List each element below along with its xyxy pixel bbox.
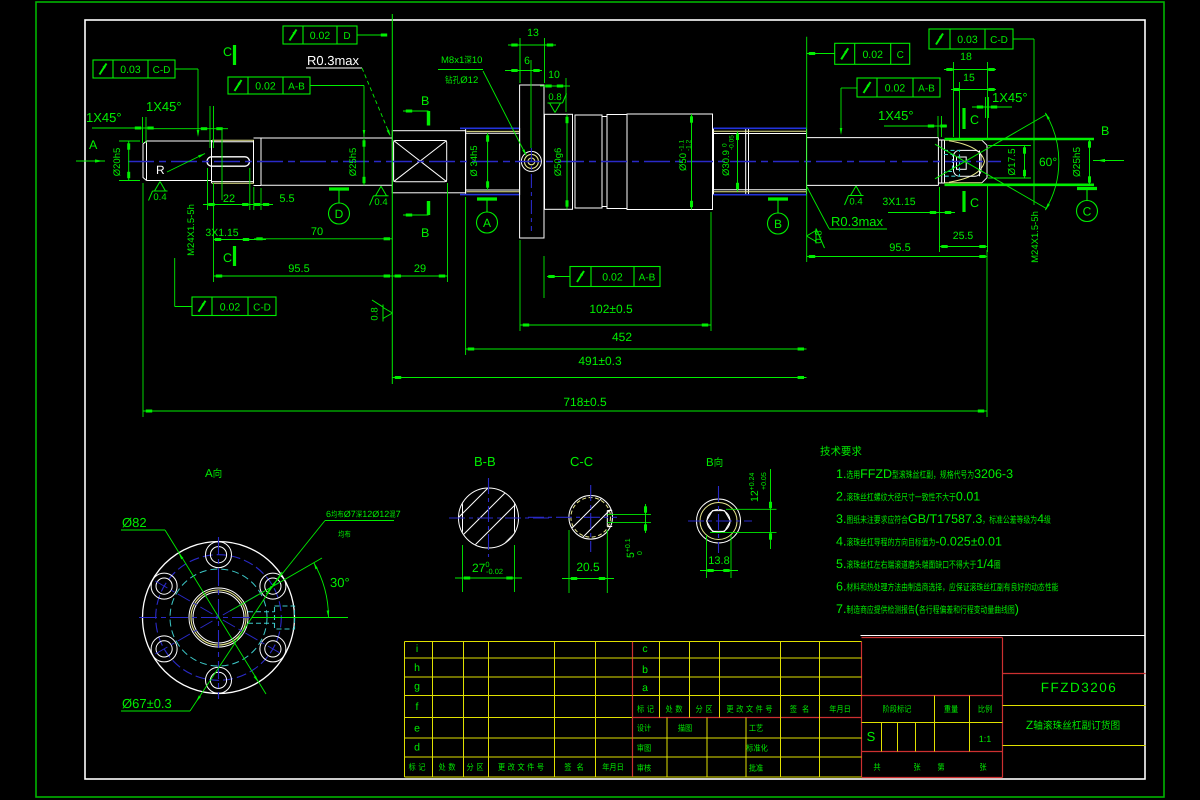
svg-text:0.01: 0.01 bbox=[956, 490, 980, 504]
svg-text:3.: 3. bbox=[836, 512, 846, 526]
svg-text:0.02: 0.02 bbox=[310, 30, 331, 42]
svg-text:0.03: 0.03 bbox=[120, 64, 141, 76]
svg-text:A-B: A-B bbox=[918, 84, 935, 95]
svg-text:13: 13 bbox=[527, 27, 539, 39]
svg-text:C-D: C-D bbox=[153, 65, 171, 76]
svg-text:d: d bbox=[414, 742, 420, 754]
svg-text:3206-3: 3206-3 bbox=[974, 467, 1013, 481]
svg-text:18: 18 bbox=[960, 51, 972, 63]
svg-text:15: 15 bbox=[963, 72, 975, 84]
svg-text:0.8: 0.8 bbox=[370, 307, 381, 320]
svg-text:A-B: A-B bbox=[288, 82, 305, 93]
svg-text:A: A bbox=[483, 216, 491, 230]
svg-text:C-D: C-D bbox=[990, 35, 1008, 46]
svg-text:-0.025±0.01: -0.025±0.01 bbox=[935, 535, 1002, 549]
svg-text:0.02: 0.02 bbox=[255, 81, 276, 93]
svg-text:5.: 5. bbox=[836, 557, 846, 571]
svg-text:0: 0 bbox=[637, 551, 644, 555]
svg-text:R0.3max: R0.3max bbox=[831, 214, 884, 229]
svg-text:): ) bbox=[1015, 602, 1019, 616]
svg-text:0.02: 0.02 bbox=[220, 301, 241, 313]
svg-text:4.: 4. bbox=[836, 535, 846, 549]
svg-text:6.: 6. bbox=[836, 580, 846, 594]
svg-text:GB/T17587.3: GB/T17587.3 bbox=[908, 512, 982, 526]
svg-text:g: g bbox=[414, 681, 420, 693]
svg-text:3X1.15: 3X1.15 bbox=[205, 227, 238, 239]
svg-text:Ø50g6: Ø50g6 bbox=[553, 148, 564, 177]
svg-text:Ø67±0.3: Ø67±0.3 bbox=[122, 696, 172, 711]
svg-text:b: b bbox=[642, 664, 648, 676]
svg-text:1X45°: 1X45° bbox=[992, 90, 1028, 105]
svg-text:C: C bbox=[897, 50, 904, 61]
svg-text:f: f bbox=[416, 701, 419, 713]
svg-text:Ø7: Ø7 bbox=[344, 509, 356, 519]
svg-text:5.5: 5.5 bbox=[279, 193, 294, 205]
svg-text:0: 0 bbox=[722, 143, 729, 147]
svg-text:Ø25h5: Ø25h5 bbox=[348, 148, 359, 177]
svg-text:1/4: 1/4 bbox=[976, 557, 993, 571]
svg-text:Ø 34h5: Ø 34h5 bbox=[469, 145, 480, 176]
svg-text:60°: 60° bbox=[1039, 155, 1057, 169]
svg-text:Ø82: Ø82 bbox=[122, 515, 147, 530]
svg-text:M8x1: M8x1 bbox=[441, 55, 464, 66]
svg-text:10: 10 bbox=[548, 69, 560, 81]
svg-text:-0.05: -0.05 bbox=[729, 135, 736, 150]
svg-text:29: 29 bbox=[414, 263, 426, 275]
svg-text:h: h bbox=[414, 662, 420, 674]
svg-text:0.4: 0.4 bbox=[153, 192, 166, 203]
svg-text:Ø17.5: Ø17.5 bbox=[1007, 148, 1018, 176]
svg-text:0.02: 0.02 bbox=[885, 83, 906, 95]
svg-text:95.5: 95.5 bbox=[889, 242, 910, 254]
svg-text:Ø30.9: Ø30.9 bbox=[721, 150, 732, 176]
svg-text:M24X1.5-5h: M24X1.5-5h bbox=[186, 204, 197, 256]
svg-text:B: B bbox=[421, 226, 429, 240]
svg-text:0.02: 0.02 bbox=[862, 49, 883, 61]
svg-text:C: C bbox=[970, 196, 979, 210]
svg-text:0.03: 0.03 bbox=[957, 34, 978, 46]
svg-text:B: B bbox=[421, 94, 429, 108]
svg-text:S: S bbox=[867, 729, 876, 744]
svg-text:20.5: 20.5 bbox=[576, 560, 600, 574]
svg-text:6: 6 bbox=[524, 55, 530, 67]
svg-text:1X45°: 1X45° bbox=[878, 108, 914, 123]
svg-text:70: 70 bbox=[311, 226, 323, 238]
svg-text:102±0.5: 102±0.5 bbox=[589, 302, 633, 316]
svg-text:Ø25h5: Ø25h5 bbox=[1072, 147, 1083, 177]
svg-text:Ø50: Ø50 bbox=[678, 153, 689, 171]
svg-text:13.8: 13.8 bbox=[708, 555, 729, 567]
svg-text:A: A bbox=[205, 468, 213, 480]
svg-text:+0.05: +0.05 bbox=[761, 472, 768, 490]
svg-text:Ø20h5: Ø20h5 bbox=[112, 148, 123, 177]
svg-text:0.8: 0.8 bbox=[548, 92, 561, 103]
svg-text:B: B bbox=[1101, 124, 1109, 138]
svg-text:1.: 1. bbox=[836, 467, 846, 481]
svg-text:C: C bbox=[970, 113, 979, 127]
svg-text:Ø12: Ø12 bbox=[460, 75, 478, 86]
svg-text:C-D: C-D bbox=[253, 302, 271, 313]
svg-text:0.4: 0.4 bbox=[849, 197, 862, 208]
svg-text:95.5: 95.5 bbox=[288, 263, 309, 275]
svg-text:7: 7 bbox=[396, 509, 401, 519]
svg-text:FFZD: FFZD bbox=[860, 467, 892, 481]
svg-text:0.02: 0.02 bbox=[602, 272, 623, 284]
svg-text:1X45°: 1X45° bbox=[86, 110, 122, 125]
svg-text:M24X1.5-5h: M24X1.5-5h bbox=[1030, 211, 1041, 263]
svg-text:a: a bbox=[642, 682, 648, 694]
svg-text:C: C bbox=[1083, 205, 1092, 219]
svg-text:6: 6 bbox=[326, 509, 331, 519]
svg-text:C-C: C-C bbox=[570, 454, 593, 469]
svg-text:2.: 2. bbox=[836, 490, 846, 504]
svg-text:R0.3max: R0.3max bbox=[307, 53, 360, 68]
svg-text:D: D bbox=[335, 207, 344, 221]
svg-text:22: 22 bbox=[223, 193, 235, 205]
svg-text:30°: 30° bbox=[330, 575, 350, 590]
svg-text:e: e bbox=[414, 723, 420, 735]
svg-text:R: R bbox=[156, 163, 165, 177]
svg-text:A: A bbox=[89, 138, 98, 152]
svg-text:C: C bbox=[223, 45, 232, 59]
svg-text:c: c bbox=[642, 643, 647, 655]
svg-text:7.: 7. bbox=[836, 602, 846, 616]
svg-text:i: i bbox=[416, 643, 418, 655]
svg-text:0.4: 0.4 bbox=[374, 197, 387, 208]
svg-text:491±0.3: 491±0.3 bbox=[578, 354, 622, 368]
svg-text:B: B bbox=[774, 217, 782, 231]
svg-text:B: B bbox=[706, 457, 714, 469]
svg-text:B-B: B-B bbox=[474, 454, 496, 469]
svg-text:25.5: 25.5 bbox=[953, 230, 974, 242]
svg-text:A-B: A-B bbox=[639, 273, 656, 284]
svg-text:718±0.5: 718±0.5 bbox=[563, 395, 607, 409]
svg-text:4: 4 bbox=[1037, 512, 1044, 526]
svg-text:-1.1: -1.1 bbox=[679, 139, 686, 151]
svg-text:1:1: 1:1 bbox=[979, 734, 992, 744]
svg-text:Z: Z bbox=[1026, 718, 1033, 732]
svg-text:-0.02: -0.02 bbox=[486, 567, 503, 576]
svg-text:C: C bbox=[223, 251, 232, 265]
svg-text:D: D bbox=[343, 31, 350, 42]
svg-text:3X1.15: 3X1.15 bbox=[882, 196, 915, 208]
svg-text:0.8: 0.8 bbox=[814, 230, 825, 243]
svg-text:12Ø12: 12Ø12 bbox=[362, 509, 389, 519]
svg-text:10: 10 bbox=[472, 55, 483, 66]
svg-text:1X45°: 1X45° bbox=[146, 99, 182, 114]
svg-text:FFZD3206: FFZD3206 bbox=[1041, 680, 1118, 695]
svg-text:452: 452 bbox=[612, 330, 632, 344]
